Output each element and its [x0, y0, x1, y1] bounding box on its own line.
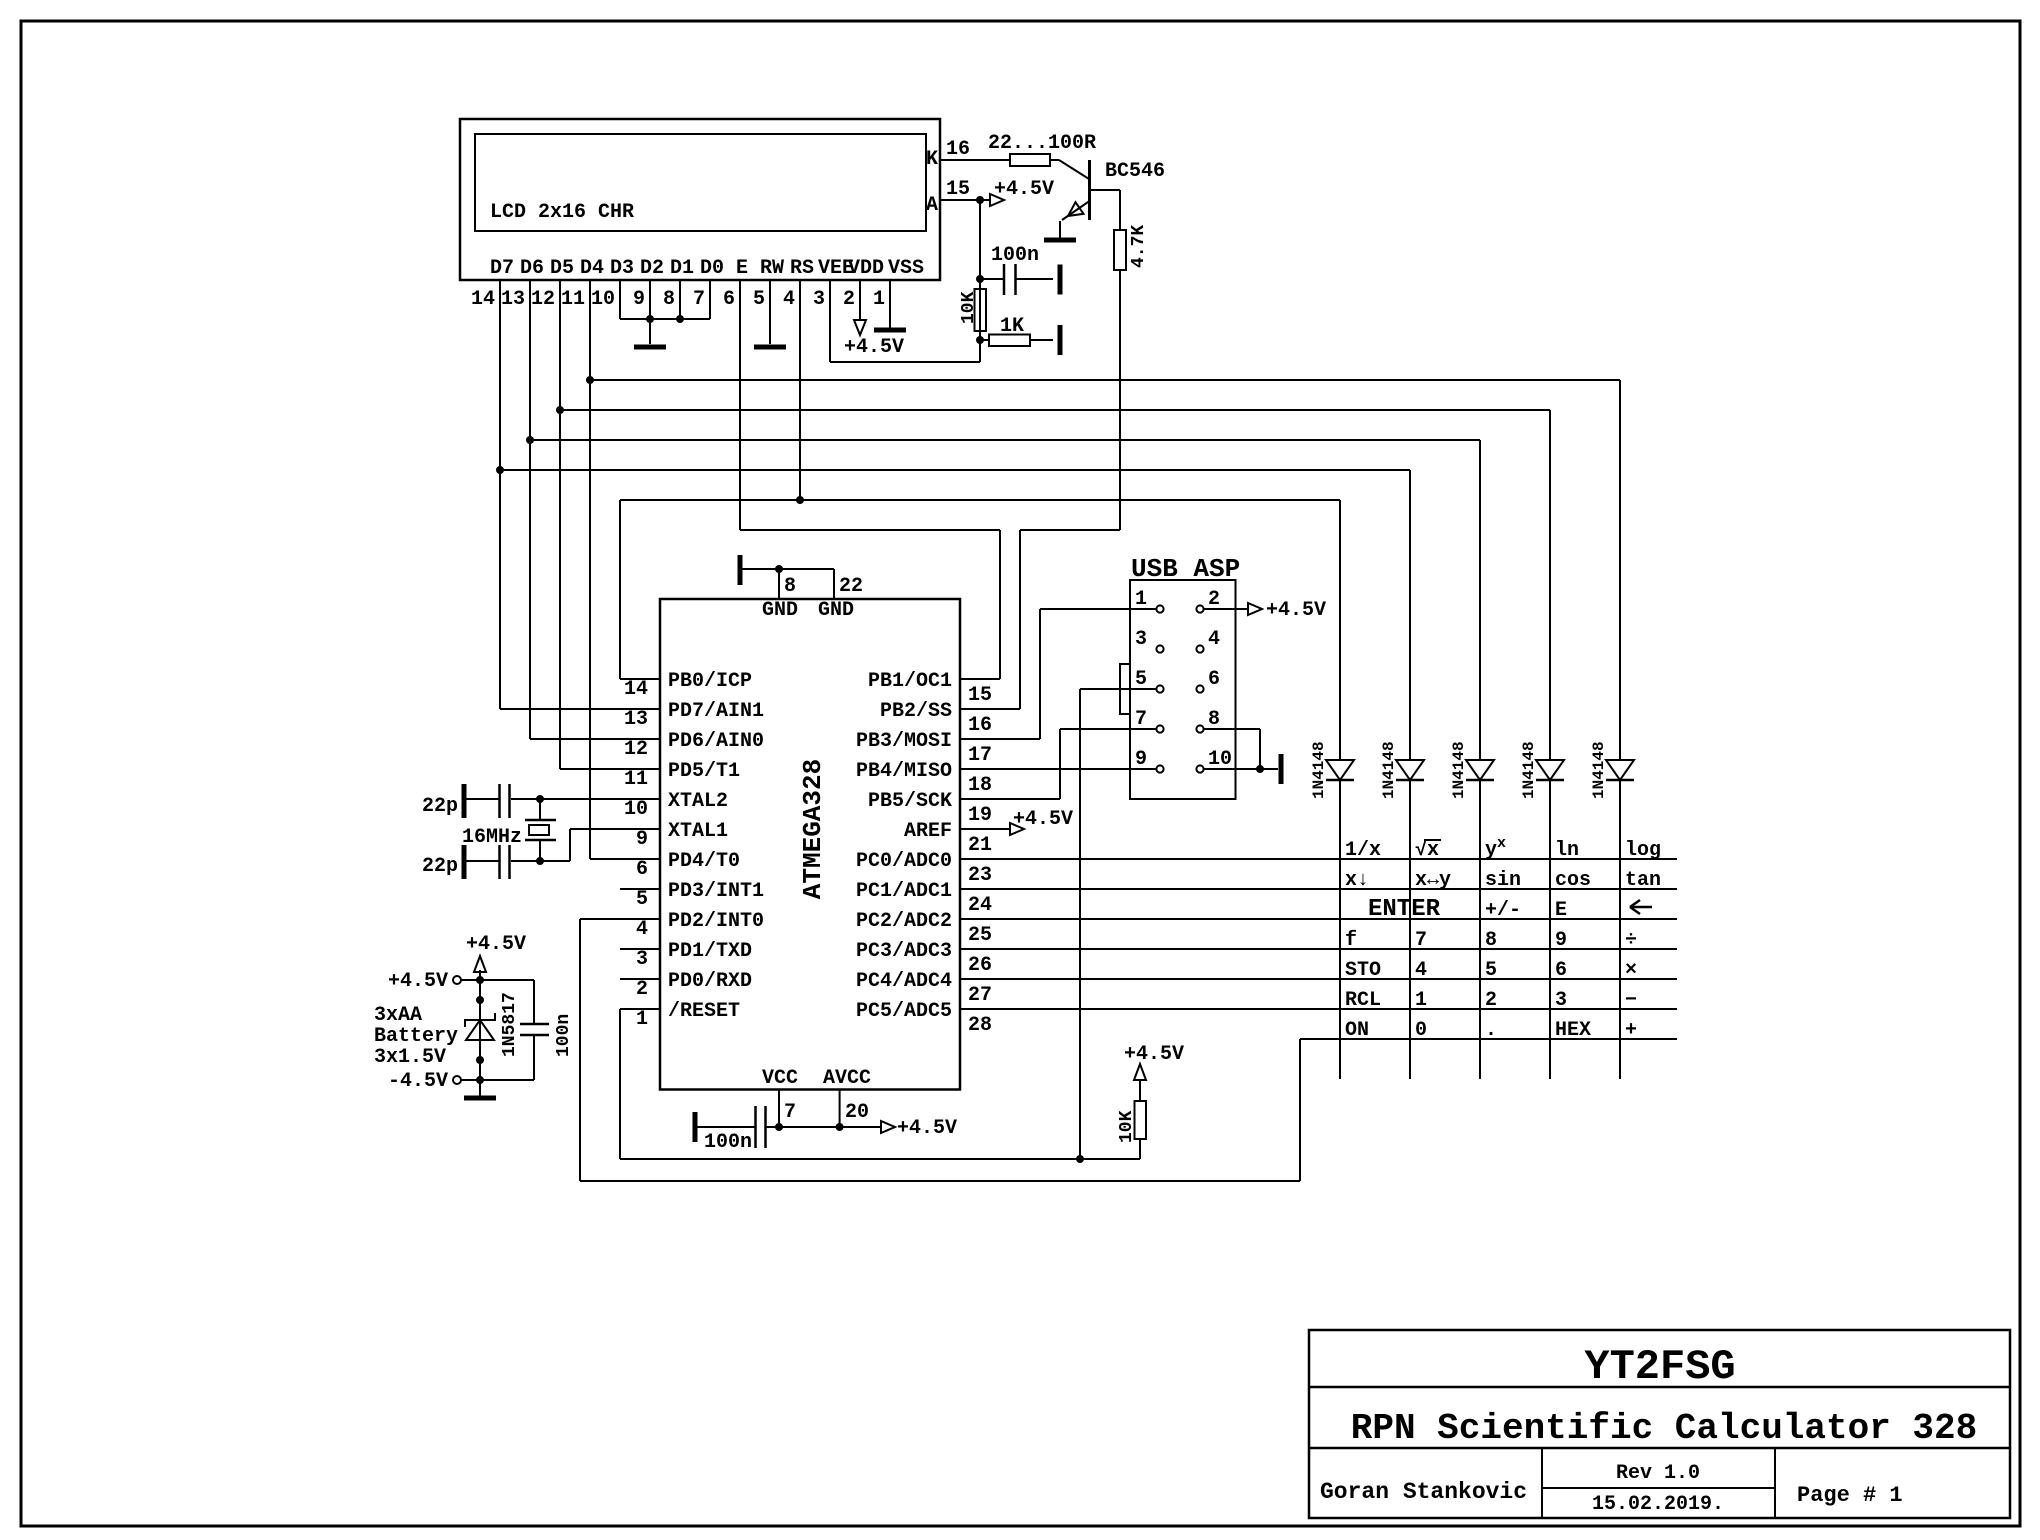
- svg-text:2: 2: [1208, 588, 1220, 611]
- svg-text:D7: D7: [490, 257, 514, 280]
- svg-text:3: 3: [1555, 989, 1567, 1012]
- svg-text:x: x: [1497, 835, 1506, 852]
- svg-text:12: 12: [624, 738, 648, 761]
- svg-text:tan: tan: [1625, 869, 1661, 892]
- svg-text:cos: cos: [1555, 869, 1591, 892]
- svg-text:7: 7: [1415, 929, 1427, 952]
- svg-text:f: f: [1345, 929, 1357, 952]
- svg-text:1/x: 1/x: [1345, 839, 1381, 862]
- svg-text:+4.5V: +4.5V: [897, 1117, 957, 1140]
- svg-text:+4.5V: +4.5V: [388, 970, 448, 993]
- svg-text:/RESET: /RESET: [668, 1000, 740, 1023]
- svg-text:ATMEGA328: ATMEGA328: [798, 759, 828, 899]
- svg-text:+4.5V: +4.5V: [1124, 1043, 1184, 1066]
- svg-text:ln: ln: [1555, 839, 1579, 862]
- svg-text:PD6/AIN0: PD6/AIN0: [668, 730, 764, 753]
- svg-text:+: +: [1625, 1019, 1637, 1042]
- svg-text:1N4148: 1N4148: [1590, 741, 1608, 799]
- svg-text:RW: RW: [760, 257, 784, 280]
- svg-text:6: 6: [1555, 959, 1567, 982]
- svg-text:11: 11: [624, 768, 648, 791]
- svg-text:22p: 22p: [422, 855, 458, 878]
- svg-text:E: E: [736, 257, 748, 280]
- svg-text:XTAL1: XTAL1: [668, 820, 728, 843]
- svg-text:RCL: RCL: [1345, 989, 1381, 1012]
- svg-text:PC3/ADC3: PC3/ADC3: [856, 940, 952, 963]
- svg-text:10: 10: [1208, 748, 1232, 771]
- svg-text:YT2FSG: YT2FSG: [1584, 1343, 1735, 1391]
- svg-text:GND: GND: [762, 599, 798, 622]
- svg-text:1N4148: 1N4148: [1520, 741, 1538, 799]
- svg-text:+4.5V: +4.5V: [1266, 599, 1326, 622]
- svg-text:XTAL2: XTAL2: [668, 790, 728, 813]
- svg-text:1K: 1K: [1000, 315, 1024, 338]
- svg-text:PB3/MOSI: PB3/MOSI: [856, 730, 952, 753]
- svg-text:27: 27: [968, 984, 992, 1007]
- svg-text:8: 8: [1485, 929, 1497, 952]
- svg-text:100n: 100n: [704, 1131, 752, 1154]
- svg-text:PB1/OC1: PB1/OC1: [868, 670, 952, 693]
- svg-text:PB0/ICP: PB0/ICP: [668, 670, 752, 693]
- svg-text:0: 0: [1415, 1019, 1427, 1042]
- svg-text:15.02.2019.: 15.02.2019.: [1592, 1493, 1724, 1516]
- svg-text:VDD: VDD: [848, 257, 884, 280]
- svg-text:x↔y: x↔y: [1415, 869, 1451, 892]
- svg-text:log: log: [1625, 839, 1661, 862]
- svg-text:Rev 1.0: Rev 1.0: [1616, 1462, 1700, 1485]
- svg-text:9: 9: [636, 828, 648, 851]
- svg-text:PD7/AIN1: PD7/AIN1: [668, 700, 764, 723]
- svg-text:PB5/SCK: PB5/SCK: [868, 790, 952, 813]
- svg-text:4: 4: [636, 918, 648, 941]
- svg-text:PD1/TXD: PD1/TXD: [668, 940, 752, 963]
- svg-text:10K: 10K: [959, 291, 979, 324]
- svg-text:12: 12: [531, 288, 555, 311]
- svg-text:3x1.5V: 3x1.5V: [374, 1046, 446, 1069]
- svg-text:4: 4: [1208, 628, 1220, 651]
- svg-text:y: y: [1485, 839, 1497, 862]
- svg-text:4: 4: [1415, 959, 1427, 982]
- svg-text:3: 3: [1135, 628, 1147, 651]
- svg-text:AVCC: AVCC: [823, 1067, 871, 1090]
- svg-text:6: 6: [636, 858, 648, 881]
- svg-text:PD4/T0: PD4/T0: [668, 850, 740, 873]
- svg-text:x↓: x↓: [1345, 869, 1369, 892]
- svg-text:23: 23: [968, 864, 992, 887]
- svg-text:PC2/ADC2: PC2/ADC2: [856, 910, 952, 933]
- svg-text:−: −: [1625, 989, 1637, 1012]
- svg-text:+4.5V: +4.5V: [994, 178, 1054, 201]
- svg-text:5: 5: [753, 288, 765, 311]
- svg-text:21: 21: [968, 834, 992, 857]
- svg-text:8: 8: [1208, 708, 1220, 731]
- svg-text:13: 13: [501, 288, 525, 311]
- svg-text:15: 15: [946, 178, 970, 201]
- svg-text:1N4148: 1N4148: [1380, 741, 1398, 799]
- svg-text:10: 10: [624, 798, 648, 821]
- svg-text:2: 2: [1485, 989, 1497, 1012]
- svg-text:20: 20: [845, 1101, 869, 1124]
- svg-text:RPN Scientific Calculator 328: RPN Scientific Calculator 328: [1351, 1408, 1978, 1449]
- svg-text:1N4148: 1N4148: [1450, 741, 1468, 799]
- svg-text:PC0/ADC0: PC0/ADC0: [856, 850, 952, 873]
- svg-text:+4.5V: +4.5V: [466, 933, 526, 956]
- svg-text:Page # 1: Page # 1: [1797, 1483, 1903, 1508]
- svg-text:E: E: [1555, 899, 1567, 922]
- svg-text:8: 8: [663, 288, 675, 311]
- svg-text:D5: D5: [550, 257, 574, 280]
- svg-text:ON: ON: [1345, 1019, 1369, 1042]
- svg-text:2: 2: [843, 288, 855, 311]
- svg-text:22: 22: [839, 575, 863, 598]
- svg-text:7: 7: [784, 1101, 796, 1124]
- svg-text:PD3/INT1: PD3/INT1: [668, 880, 764, 903]
- svg-text:11: 11: [561, 288, 585, 311]
- svg-text:.: .: [1485, 1019, 1497, 1042]
- svg-text:D3: D3: [610, 257, 634, 280]
- svg-text:22...100R: 22...100R: [988, 132, 1096, 155]
- svg-text:5: 5: [636, 888, 648, 911]
- svg-text:PC1/ADC1: PC1/ADC1: [856, 880, 952, 903]
- svg-text:10: 10: [591, 288, 615, 311]
- svg-text:Battery: Battery: [374, 1025, 458, 1048]
- svg-text:BC546: BC546: [1105, 160, 1165, 183]
- svg-text:PD0/RXD: PD0/RXD: [668, 970, 752, 993]
- svg-text:6: 6: [723, 288, 735, 311]
- svg-text:PD5/T1: PD5/T1: [668, 760, 740, 783]
- svg-text:24: 24: [968, 894, 992, 917]
- svg-text:10K: 10K: [1117, 1110, 1137, 1143]
- svg-text:K: K: [926, 148, 938, 171]
- svg-text:PC4/ADC4: PC4/ADC4: [856, 970, 952, 993]
- svg-text:A: A: [926, 194, 938, 217]
- svg-text:8: 8: [784, 575, 796, 598]
- svg-text:26: 26: [968, 954, 992, 977]
- svg-text:22p: 22p: [422, 795, 458, 818]
- svg-text:HEX: HEX: [1555, 1019, 1591, 1042]
- svg-text:D2: D2: [640, 257, 664, 280]
- svg-text:1: 1: [1135, 588, 1147, 611]
- svg-text:LCD 2x16 CHR: LCD 2x16 CHR: [490, 201, 634, 224]
- svg-text:4: 4: [783, 288, 795, 311]
- svg-text:9: 9: [1555, 929, 1567, 952]
- svg-text:16MHz: 16MHz: [462, 826, 522, 849]
- svg-text:5: 5: [1485, 959, 1497, 982]
- svg-text:PB2/SS: PB2/SS: [880, 700, 952, 723]
- svg-text:1N5817: 1N5817: [500, 992, 520, 1057]
- svg-text:D6: D6: [520, 257, 544, 280]
- svg-text:PD2/INT0: PD2/INT0: [668, 910, 764, 933]
- svg-text:6: 6: [1208, 668, 1220, 691]
- svg-text:1: 1: [873, 288, 885, 311]
- svg-text:Goran Stankovic: Goran Stankovic: [1320, 1479, 1527, 1505]
- svg-text:16: 16: [968, 714, 992, 737]
- svg-text:+4.5V: +4.5V: [1013, 808, 1073, 831]
- svg-text:+/-: +/-: [1485, 899, 1521, 922]
- svg-text:D4: D4: [580, 257, 604, 280]
- svg-text:9: 9: [1135, 748, 1147, 771]
- svg-text:17: 17: [968, 744, 992, 767]
- svg-text:VCC: VCC: [762, 1067, 798, 1090]
- svg-text:5: 5: [1135, 668, 1147, 691]
- svg-text:-4.5V: -4.5V: [388, 1070, 448, 1093]
- svg-text:19: 19: [968, 804, 992, 827]
- svg-text:9: 9: [633, 288, 645, 311]
- svg-text:1: 1: [636, 1008, 648, 1031]
- svg-text:7: 7: [693, 288, 705, 311]
- svg-text:100n: 100n: [991, 244, 1039, 267]
- svg-text:16: 16: [946, 138, 970, 161]
- svg-text:3: 3: [636, 948, 648, 971]
- svg-text:1: 1: [1415, 989, 1427, 1012]
- svg-text:D1: D1: [670, 257, 694, 280]
- svg-text:100n: 100n: [554, 1014, 574, 1057]
- svg-text:sin: sin: [1485, 869, 1521, 892]
- svg-text:28: 28: [968, 1014, 992, 1037]
- svg-text:PB4/MISO: PB4/MISO: [856, 760, 952, 783]
- svg-text:PC5/ADC5: PC5/ADC5: [856, 1000, 952, 1023]
- svg-text:D0: D0: [700, 257, 724, 280]
- svg-text:13: 13: [624, 708, 648, 731]
- svg-text:14: 14: [471, 288, 495, 311]
- svg-text:2: 2: [636, 978, 648, 1001]
- svg-text:3: 3: [813, 288, 825, 311]
- svg-text:25: 25: [968, 924, 992, 947]
- svg-text:AREF: AREF: [904, 820, 952, 843]
- svg-text:3xAA: 3xAA: [374, 1004, 422, 1027]
- svg-text:×: ×: [1625, 959, 1637, 982]
- svg-text:÷: ÷: [1625, 929, 1637, 952]
- svg-text:4.7K: 4.7K: [1129, 225, 1149, 268]
- svg-text:√x: √x: [1415, 839, 1439, 862]
- svg-text:1N4148: 1N4148: [1310, 741, 1328, 799]
- svg-text:18: 18: [968, 774, 992, 797]
- svg-text:15: 15: [968, 684, 992, 707]
- svg-text:STO: STO: [1345, 959, 1381, 982]
- svg-text:ENTER: ENTER: [1368, 896, 1441, 923]
- svg-text:+4.5V: +4.5V: [844, 336, 904, 359]
- svg-text:14: 14: [624, 678, 648, 701]
- svg-text:RS: RS: [790, 257, 814, 280]
- svg-text:7: 7: [1135, 708, 1147, 731]
- svg-text:VSS: VSS: [888, 257, 924, 280]
- svg-text:GND: GND: [818, 599, 854, 622]
